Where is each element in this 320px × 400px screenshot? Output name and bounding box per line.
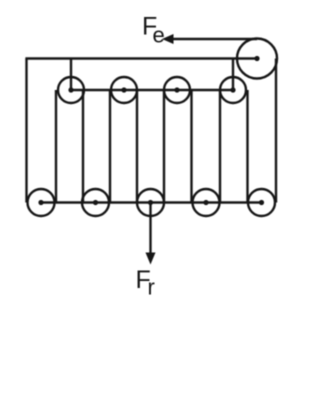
upper pulley U1 <box>58 77 84 103</box>
rope segment L4-U4 <box>219 90 221 203</box>
axle dot U2 <box>121 87 126 92</box>
rope segment L3-U3 <box>163 90 165 203</box>
axle dot U3 <box>174 87 179 92</box>
hanger link upper pulley U1 <box>70 59 72 91</box>
rope segment U2-L3 <box>136 90 138 203</box>
top guide pulley P0 <box>237 39 277 79</box>
hanger link upper pulley U4 <box>232 59 234 91</box>
lower pulley L3 <box>137 189 164 216</box>
svg-text:e: e <box>153 23 165 48</box>
axle dot L4 <box>203 200 208 205</box>
upper pulley U4 <box>220 77 246 103</box>
rope segment U4-L5 <box>246 90 248 203</box>
axle dot L2 <box>93 200 98 205</box>
upper pulley U2 <box>111 77 137 103</box>
arrowhead Fe <box>162 34 174 44</box>
axle dot top pulley P0 <box>254 56 259 61</box>
rope segment L5 to top pulley <box>275 59 277 203</box>
effort rope to Fe <box>171 38 257 40</box>
lower pulley L1 <box>28 189 55 216</box>
lower pulley L5 <box>248 189 275 216</box>
axle dot L3 <box>148 200 153 205</box>
rope anchor segment left <box>25 59 27 203</box>
rope segment L2-U2 <box>109 90 111 203</box>
axle dot L1 <box>38 200 43 205</box>
rope segment U1-L2 <box>82 90 84 203</box>
upper block axle bar <box>71 89 233 91</box>
lower pulley L4 <box>193 189 220 216</box>
rope segment U3-L4 <box>190 90 192 203</box>
axle dot U1 <box>68 87 73 92</box>
lower block axle bar <box>41 201 262 203</box>
axle dot U4 <box>230 87 235 92</box>
support beam top line <box>25 57 257 59</box>
load rope to Fr <box>149 203 151 254</box>
svg-text:r: r <box>148 275 155 300</box>
lower pulley L2 <box>82 189 109 216</box>
rope segment L1-U1 <box>55 90 57 203</box>
upper pulley U3 <box>164 77 190 103</box>
axle dot L5 <box>259 200 264 205</box>
arrowhead Fr <box>146 253 156 265</box>
